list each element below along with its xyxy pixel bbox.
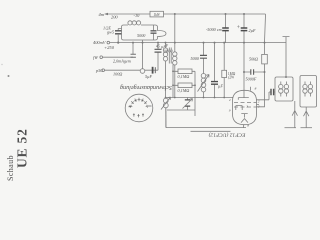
wire V x=174.8 from H1 to bus <box>174 14 176 43</box>
loop2 coil a <box>303 84 307 88</box>
loop2 coil b <box>308 84 312 88</box>
wire V x=142.5 bus to jack <box>142 43 144 69</box>
resistor R4 box vertical <box>222 70 227 77</box>
wire H bottom of osc box <box>167 109 195 111</box>
svg-text:1kW: 1kW <box>154 13 161 17</box>
svg-text:µF: µF <box>164 44 169 48</box>
svg-text:fW: fW <box>93 55 98 60</box>
svg-text:4m: 4m <box>99 12 105 17</box>
wire V x=173 T1 to osc <box>172 65 174 98</box>
wire V from shield box to bus <box>142 40 144 43</box>
socket pin marks <box>128 98 151 118</box>
node terminal left of H1 <box>104 13 108 16</box>
speaker arrow 1 <box>292 101 297 128</box>
capacitor C12 series <box>271 89 274 95</box>
IF transformer T1 core <box>169 48 171 64</box>
svg-text:UE 52: UE 52 <box>14 128 29 168</box>
coil L1 on shield box top <box>128 21 132 25</box>
capacitor C8 <box>211 82 218 85</box>
capacitor C2 inside shield box <box>153 25 155 40</box>
jack J1 circle <box>140 69 145 74</box>
svg-text:µF: µF <box>218 84 223 89</box>
wire H4 output tap <box>105 69 159 71</box>
resistor R3 box <box>178 83 192 88</box>
wire V x=244 H1 to tube <box>243 14 245 90</box>
tube V1 heater <box>241 119 248 123</box>
node terminal circle of H3 <box>100 56 103 59</box>
loop1 coil a <box>279 84 283 88</box>
svg-text:(2W: (2W <box>228 76 235 80</box>
oscillator coil L2 <box>163 98 168 103</box>
resistor R1 box on H1 <box>150 11 164 17</box>
wire top bus H1 <box>106 13 265 15</box>
resistor R2 box <box>178 69 192 74</box>
svg-text:45: 45 <box>156 45 160 49</box>
capacitor C7 on x=203 <box>203 43 205 74</box>
capacitor C5 <box>155 49 162 52</box>
capacitor C11 on x=225.5 <box>222 28 229 31</box>
wire tube plate to output, y=100 <box>257 92 276 100</box>
svg-text:2: 2 <box>258 105 260 109</box>
svg-text:-5000 cm: -5000 cm <box>206 27 222 32</box>
tube V1 envelope EL/ECF <box>233 90 257 124</box>
svg-text:8: 8 <box>255 87 257 91</box>
tube V1 anode <box>238 90 249 100</box>
node terminal circle of H4 <box>102 69 105 72</box>
tube V1 cathode <box>241 114 247 118</box>
wire bottom bus H6 <box>166 127 246 129</box>
arrow 2 base <box>301 127 313 129</box>
svg-text:0,1MΩ: 0,1MΩ <box>178 88 190 94</box>
svg-text:50kΩ: 50kΩ <box>249 57 258 62</box>
svg-text:Schwundausregelung: Schwundausregelung <box>120 84 172 90</box>
shield box mixer stage <box>122 25 167 40</box>
svg-text:2: 2 <box>229 98 231 102</box>
svg-text:+: + <box>237 25 240 31</box>
arrow across L3 <box>198 75 210 92</box>
wire V x=225.5 cap on top bus going down (5000cm cap) <box>225 14 227 43</box>
corner bottom-left up to L2 <box>165 108 167 128</box>
tube V1 left pin wire to H5 <box>231 97 234 99</box>
svg-text:µ: µ <box>161 45 163 49</box>
svg-text:5000: 5000 <box>137 33 146 38</box>
dust speck <box>8 75 10 77</box>
wire H3 volume tap <box>103 56 134 58</box>
svg-text:5µF: 5µF <box>145 74 153 79</box>
loop1 coil b <box>284 84 288 88</box>
tube label underline <box>191 130 231 132</box>
svg-text:8: 8 <box>247 124 249 128</box>
svg-text:2µF: 2µF <box>249 28 257 33</box>
wire grid lead left of shield box <box>118 29 121 44</box>
svg-text:5000: 5000 <box>191 56 200 61</box>
capacitor C1 grid <box>115 31 121 34</box>
svg-text:p50: p50 <box>95 68 103 73</box>
IF transformer T1 secondary coil <box>174 43 176 52</box>
speaker arrow 2 <box>304 107 309 128</box>
tube V1 pin stubs <box>251 87 260 105</box>
capacitor C3 <box>131 54 136 57</box>
tube socket circle <box>125 94 153 122</box>
output transformer loop2 <box>300 76 317 108</box>
svg-text:5000F: 5000F <box>246 76 257 81</box>
tube V1 grids <box>234 102 257 104</box>
wire main bus H2 <box>110 42 287 44</box>
svg-text:200: 200 <box>111 15 118 20</box>
svg-text:-10: -10 <box>134 13 141 18</box>
wire V x=195 resistor right leg <box>194 71 196 116</box>
terminal T-top right <box>283 37 290 77</box>
resistor R5 box vertical <box>262 54 268 64</box>
svg-text:ECF12 (UCF12): ECF12 (UCF12) <box>208 131 246 138</box>
IF transformer T1 primary coil <box>165 43 167 48</box>
svg-text:100Ω: 100Ω <box>113 71 122 76</box>
wire V x=133 bus to cap <box>132 43 134 55</box>
capacitor C10 between x244 and x264 <box>244 71 265 73</box>
junction dots on buses <box>117 13 287 98</box>
wire V x=158 bus to H4 <box>157 43 159 71</box>
svg-text:3: 3 <box>246 104 248 108</box>
output transformer loop1 <box>275 77 293 101</box>
arrow 1 base <box>285 127 297 129</box>
arrow across L2 <box>161 97 171 110</box>
variable coil L3 <box>201 74 206 79</box>
arrow across C6 <box>183 99 193 109</box>
wire V x=264.5 top corner from H1 <box>257 14 266 107</box>
svg-text:+250: +250 <box>104 45 115 50</box>
node terminal circle left of H2 <box>107 41 110 44</box>
svg-text:0,1MΩ: 0,1MΩ <box>178 74 190 80</box>
svg-text:2,0mAgem: 2,0mAgem <box>113 58 131 64</box>
trimmer capacitor C6 <box>187 98 189 111</box>
tube V1 bottom pin <box>243 125 245 128</box>
capacitor C4 electrolytic <box>152 67 154 74</box>
wire H5 grid line to tube <box>166 97 234 99</box>
tube pin number labels <box>229 87 260 128</box>
wire V x=216.5 bus down <box>214 43 216 98</box>
svg-text:9: 9 <box>229 109 231 113</box>
capacitor C9 <box>241 28 248 31</box>
wire V x=225.5 bus down <box>223 43 225 98</box>
svg-text:gw5: gw5 <box>107 30 114 35</box>
